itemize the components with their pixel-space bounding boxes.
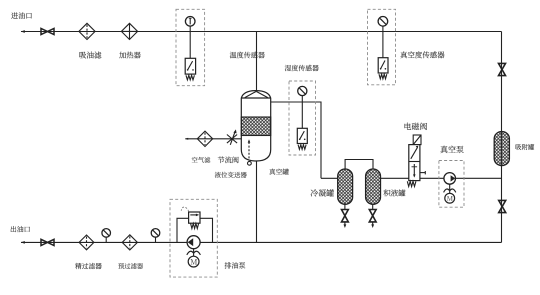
label label 加热器	[119, 52, 141, 59]
vacuum pump circle	[444, 173, 456, 185]
vacuum sensor dashed box	[368, 9, 396, 85]
throttle valve 节流阀	[227, 129, 237, 144]
label label 预过滤器	[118, 263, 143, 269]
condenser 冷凝罐 capsule	[338, 169, 353, 204]
wire right vertical line	[501, 32, 503, 243]
wire vacuum tank top pipe	[256, 32, 258, 92]
vacuum pump dashed box	[439, 161, 464, 208]
heater 加热器 diamond	[121, 23, 137, 39]
accumulator 积液罐 capsule	[366, 169, 381, 204]
vacuum sensor stem wire	[382, 26, 384, 58]
temperature sensor bulb circle	[185, 17, 195, 27]
filter 空气滤 diamond	[197, 131, 212, 146]
label label 空气滤	[192, 157, 211, 163]
label label 精过滤器	[75, 263, 102, 269]
label label 积液罐	[384, 189, 406, 196]
level transmitter dashed probe	[248, 139, 252, 165]
condenser drain valve	[342, 204, 349, 228]
humidity switch symbol	[297, 128, 307, 149]
label label 节流阀	[218, 156, 239, 163]
right line lower valve	[499, 200, 506, 212]
filter 吸油滤 diamond	[79, 23, 95, 39]
adsorber 吸附罐 capsule	[494, 132, 509, 166]
wire air inlet line	[185, 138, 241, 140]
filter 预过滤器 diamond	[122, 235, 137, 250]
vacuum tank 真空罐 shell	[241, 91, 270, 161]
label label 湿度传感器	[285, 65, 319, 71]
label label 吸油滤	[79, 52, 101, 59]
wire bottom main line	[21, 241, 502, 244]
label label 液位变送器	[215, 172, 247, 178]
wire condenser row line left	[321, 177, 338, 179]
pressure gauge 2	[151, 229, 160, 243]
relief valve	[181, 207, 200, 228]
label label 真空度传感器	[400, 51, 444, 58]
vacuum sensor circle	[378, 17, 388, 27]
label label 真空罐	[269, 169, 288, 175]
label label 冷凝罐	[311, 189, 334, 196]
accumulator drain valve	[369, 204, 376, 228]
valve outlet bowtie	[41, 239, 54, 245]
vacuum tank packing band	[241, 117, 270, 136]
label outlet 出油口	[11, 226, 30, 232]
label label 温度传感器	[230, 52, 265, 59]
vacuum switch symbol	[378, 58, 388, 79]
filter 精过滤器 diamond	[79, 235, 94, 250]
label label 排油泵	[225, 262, 246, 269]
pressure gauge 1	[102, 229, 111, 243]
label label 电磁阀	[405, 123, 428, 130]
temperature switch symbol	[185, 58, 195, 80]
discharge pump circle	[187, 236, 200, 249]
wire condenser bridge	[345, 160, 373, 170]
wire tank to humidity sensor and condenser	[271, 102, 321, 178]
humidity sensor stem wire	[301, 96, 303, 129]
humidity sensor dashed box	[289, 81, 316, 155]
discharge pump coupling and motor	[187, 249, 201, 267]
vacuum pump coupling and motor	[444, 184, 456, 203]
label label 真空泵	[440, 146, 463, 153]
wire top main line	[21, 30, 502, 33]
label label 吸附罐	[516, 144, 535, 150]
wire condenser row line right to pump and main	[381, 177, 502, 179]
discharge pump dashed box	[170, 199, 217, 277]
humidity sensor circle	[298, 86, 307, 95]
right line upper valve	[499, 63, 506, 75]
temperature sensor stem wire	[189, 26, 191, 58]
solenoid valve 电磁阀	[407, 135, 425, 187]
label inlet 进油口	[11, 12, 32, 19]
valve inlet bowtie	[41, 28, 54, 34]
bypass loop wire	[177, 218, 213, 242]
temperature sensor dashed box	[176, 9, 205, 85]
wire vacuum tank bottom pipe	[256, 161, 258, 243]
